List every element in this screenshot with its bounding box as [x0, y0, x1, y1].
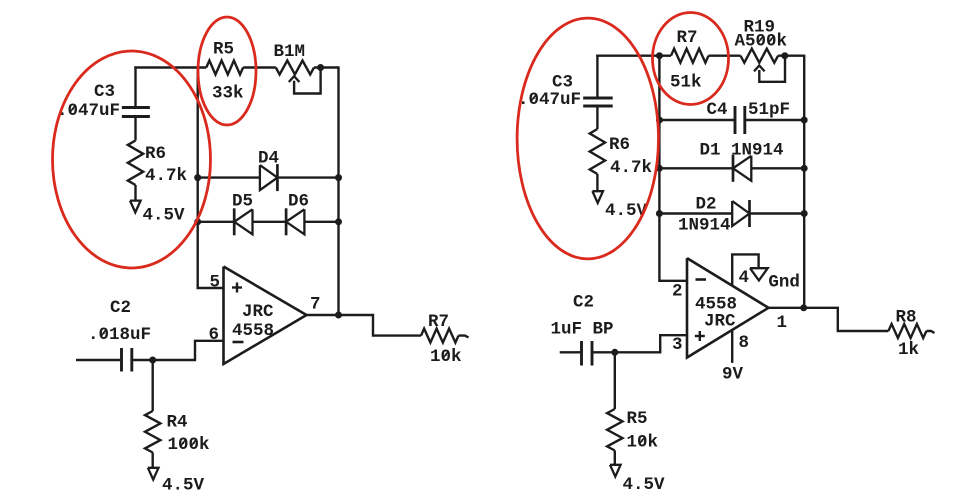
svg-text:A500k: A500k — [735, 32, 788, 52]
junction dot wiper (right) — [781, 52, 788, 59]
svg-text:1N914: 1N914 — [678, 216, 731, 236]
value 100k — [168, 435, 210, 455]
label 4.5V (right R5) — [623, 475, 666, 495]
plus sign (pin3) — [695, 331, 705, 341]
value 51k — [670, 73, 702, 93]
svg-text:R5: R5 — [213, 40, 234, 60]
diode D2 — [732, 200, 749, 227]
wire to D5 — [198, 221, 235, 223]
label D4 — [258, 149, 279, 169]
label 4.5V (R4) — [162, 476, 205, 496]
ground arrow 4.5V (right R5) — [610, 465, 621, 477]
svg-text:JRC: JRC — [704, 312, 736, 332]
wire C2 left lead (left) — [76, 359, 122, 361]
pot R19 wiper arrow — [754, 66, 765, 72]
pot R19 wiper wire — [759, 56, 785, 82]
svg-text:R5: R5 — [627, 409, 648, 429]
resistor R4 — [145, 411, 160, 453]
svg-text:JRC: JRC — [242, 302, 274, 322]
junction dot C2/R4 — [149, 357, 156, 364]
svg-text:2: 2 — [672, 282, 683, 302]
diode D4 — [260, 164, 278, 191]
resistor R6 (left) — [128, 141, 143, 186]
svg-text:8: 8 — [739, 333, 750, 353]
svg-text:B1M: B1M — [274, 42, 306, 62]
pin 3 label — [672, 335, 683, 355]
junction dot C4 left — [656, 117, 663, 124]
svg-text:4558: 4558 — [232, 321, 274, 341]
ground arrow 4.5V (left R6) — [130, 201, 141, 213]
svg-text:R8: R8 — [896, 308, 917, 328]
junction dot output (right) — [800, 304, 807, 311]
value 10k (right) — [627, 433, 659, 453]
value 33k — [212, 84, 244, 104]
pin 4 label — [739, 268, 750, 288]
wire R5 to B1M — [243, 66, 276, 68]
svg-text:3: 3 — [672, 335, 683, 355]
ground arrow Gnd — [750, 268, 768, 280]
svg-text:C4: C4 — [707, 100, 728, 120]
wire C4 to right rail — [745, 119, 804, 121]
svg-text:D5: D5 — [232, 192, 253, 212]
resistor R7 output (left) — [421, 329, 459, 343]
label R6 (right) — [609, 135, 630, 155]
junction dot D1 left — [656, 165, 663, 172]
wire R7 to R19 — [709, 55, 741, 57]
svg-text:C2: C2 — [573, 293, 594, 313]
wire output U1 — [307, 315, 422, 336]
label C4 — [707, 100, 728, 120]
svg-text:D2: D2 — [696, 195, 717, 215]
junction dot wiper/top wire — [317, 64, 324, 71]
label C2 (right) — [573, 293, 594, 313]
wire D2 to right rail — [750, 212, 805, 214]
left rail (pin5 feed) — [198, 66, 224, 288]
minus sign (pin2) — [696, 278, 707, 281]
label C2 (left) — [110, 298, 131, 318]
value 4.7k (left) — [145, 166, 187, 186]
wire D6 to right rail — [304, 221, 338, 223]
svg-text:7: 7 — [310, 295, 321, 315]
capacitor C3 (left) — [122, 108, 150, 117]
label R8 — [896, 308, 917, 328]
svg-text:4.7k: 4.7k — [610, 158, 652, 178]
svg-text:R7: R7 — [677, 28, 698, 48]
svg-text:C3: C3 — [94, 82, 115, 102]
value .047uF (left) — [57, 101, 120, 121]
wire R8 tail — [926, 331, 934, 333]
wire pin3 feed — [615, 335, 687, 352]
svg-text:R6: R6 — [609, 135, 630, 155]
junction dot C2/R5 — [611, 349, 618, 356]
junction dot output (left) — [335, 312, 342, 319]
ground arrow 4.5V (R4) — [148, 468, 159, 480]
pot B1M wiper arrow — [289, 76, 300, 82]
svg-text:4.5V: 4.5V — [143, 206, 186, 226]
svg-text:1: 1 — [777, 313, 788, 333]
junction dot C4 right — [801, 117, 808, 124]
resistor R5 (right) — [607, 409, 622, 451]
potentiometer R19 — [741, 49, 779, 63]
junction dot D4 left — [194, 174, 201, 181]
op-amp U1 JRC4558 (left) — [224, 267, 307, 365]
wire B1M to corner — [314, 66, 339, 68]
wire D5 to D6 — [253, 221, 287, 223]
potentiometer B1M — [276, 61, 314, 75]
wire R4 to ground — [151, 453, 153, 468]
svg-text:5: 5 — [210, 273, 221, 293]
red ellipse highlight (R5) — [198, 17, 256, 125]
junction dot D1 right — [801, 165, 808, 172]
wire C3 top stem (right) — [596, 55, 598, 98]
label 4.5V (right R6) — [605, 201, 648, 221]
svg-text:R6: R6 — [145, 144, 166, 164]
svg-text:D6: D6 — [288, 192, 309, 212]
wire R5 to ground — [614, 451, 616, 465]
capacitor C2 (left) — [122, 348, 132, 372]
right rail (feedback) — [337, 66, 339, 315]
red ellipse highlight (R7 right) — [653, 13, 729, 105]
minus sign (pin6) — [233, 341, 244, 344]
op-amp U2 4558 (right) — [687, 258, 769, 357]
value 4.7k (right) — [610, 158, 652, 178]
svg-text:R7: R7 — [428, 312, 449, 332]
wire C2 to junction (left) — [132, 359, 153, 361]
svg-text:.047uF: .047uF — [57, 101, 120, 121]
wire R6 to ground (right) — [596, 174, 598, 191]
diode D1 — [733, 155, 751, 182]
value 1k — [898, 340, 919, 360]
wire to D1 — [659, 167, 733, 169]
capacitor C3 (right) — [583, 98, 613, 106]
label D1 1N914 — [700, 141, 784, 161]
label JRC (right) — [704, 312, 736, 332]
svg-text:9V: 9V — [722, 365, 744, 385]
wire top rail left segment — [134, 66, 206, 68]
wire D1 to right rail — [751, 167, 804, 169]
label B1M — [274, 42, 306, 62]
svg-text:4.5V: 4.5V — [623, 475, 666, 495]
wire R19 to corner — [778, 55, 804, 57]
svg-text:Gnd: Gnd — [768, 273, 800, 293]
svg-text:51k: 51k — [670, 73, 702, 93]
capacitor C4 — [735, 106, 745, 134]
pin 8 label — [739, 333, 750, 353]
label R4 — [167, 413, 188, 433]
capacitor C2 (right) — [582, 341, 593, 366]
svg-text:D4: D4 — [258, 149, 279, 169]
junction dot D2 left — [656, 210, 663, 217]
value .018uF — [88, 325, 151, 345]
pin 4 hook wire — [732, 254, 758, 285]
label R6 (left) — [145, 144, 166, 164]
wire dot to R7 — [659, 55, 671, 57]
label R5 — [213, 40, 234, 60]
junction dot D6 right — [335, 218, 342, 225]
label 9V — [722, 365, 744, 385]
wire R7 tail — [459, 336, 469, 338]
pin 2 label — [672, 282, 683, 302]
diode D5 — [234, 208, 252, 235]
svg-text:100k: 100k — [168, 435, 210, 455]
svg-text:.018uF: .018uF — [88, 325, 151, 345]
resistor R5 — [206, 61, 243, 75]
red ellipse highlight (C3/R6 left) — [53, 51, 211, 268]
label R19 — [744, 18, 776, 38]
diode D6 — [286, 208, 304, 235]
svg-text:1uF BP: 1uF BP — [551, 320, 614, 340]
label D6 — [288, 192, 309, 212]
junction dot D5 left — [194, 218, 201, 225]
value 10k (left) — [430, 347, 462, 367]
left rail (right ckt) — [659, 56, 687, 281]
ground arrow 4.5V (right R6) — [592, 191, 603, 203]
pin 1 label — [777, 313, 788, 333]
resistor R6 (right) — [590, 129, 605, 174]
svg-text:.047uF: .047uF — [518, 90, 581, 110]
label C3 (right) — [552, 73, 573, 93]
wire C2 left lead (right) — [560, 351, 582, 353]
wire C2 to junction (right) — [592, 351, 615, 353]
pin 7 label — [310, 295, 321, 315]
pin 5 label — [210, 273, 221, 293]
wire D4 to right rail — [277, 176, 338, 178]
svg-text:1k: 1k — [898, 340, 919, 360]
label JRC (left) — [242, 302, 274, 322]
wire junction to R5 — [614, 352, 616, 409]
label 4.5V (left R6) — [143, 206, 186, 226]
svg-text:10k: 10k — [430, 347, 462, 367]
svg-text:51pF: 51pF — [748, 100, 790, 120]
wire pin6 feed — [153, 341, 224, 360]
label 4558 (left) — [232, 321, 274, 341]
pin 8 wire — [731, 330, 733, 363]
wire output U2 — [769, 308, 889, 331]
svg-text:R4: R4 — [167, 413, 188, 433]
svg-text:4.7k: 4.7k — [145, 166, 187, 186]
wire to D2 — [659, 212, 732, 214]
pot B1M wiper wire — [294, 68, 321, 94]
label 4558 (right) — [695, 295, 737, 315]
wire junction to R4 — [151, 360, 153, 411]
resistor R8 — [888, 324, 926, 338]
wire to D4 — [198, 176, 260, 178]
svg-text:C2: C2 — [110, 298, 131, 318]
wire C3 top stem (left) — [134, 66, 136, 107]
svg-text:33k: 33k — [212, 84, 244, 104]
wire top rail (right) — [596, 55, 659, 57]
label D2 — [696, 195, 717, 215]
wire to C4 — [659, 119, 735, 121]
value .047uF (right) — [518, 90, 581, 110]
label C3 (left) — [94, 82, 115, 102]
value A500k — [735, 32, 788, 52]
wire C3 to R6 (left) — [134, 117, 136, 141]
pin 6 label — [209, 325, 220, 345]
svg-text:D1 1N914: D1 1N914 — [700, 141, 784, 161]
value 51pF — [748, 100, 790, 120]
wire C3 to R6 (right) — [596, 106, 598, 129]
label R7 output (left) — [428, 312, 449, 332]
resistor R7 (right top) — [671, 49, 709, 63]
plus sign (pin5) — [232, 283, 242, 293]
right rail (right ckt) — [803, 55, 805, 308]
label R5 (right) — [627, 409, 648, 429]
red ellipse highlight (C3/R6 right) — [517, 18, 658, 259]
junction dot D2 right — [801, 210, 808, 217]
value 1N914 (D2) — [678, 216, 731, 236]
svg-text:4: 4 — [739, 268, 750, 288]
value 1uF BP — [551, 320, 614, 340]
label R7 (right) — [677, 28, 698, 48]
junction dot top-left (right) — [656, 52, 663, 59]
svg-text:4.5V: 4.5V — [162, 476, 205, 496]
label Gnd — [768, 273, 800, 293]
label D5 — [232, 192, 253, 212]
svg-text:10k: 10k — [627, 433, 659, 453]
junction dot D4 right — [335, 174, 342, 181]
wire R6 to ground (left) — [134, 185, 136, 201]
